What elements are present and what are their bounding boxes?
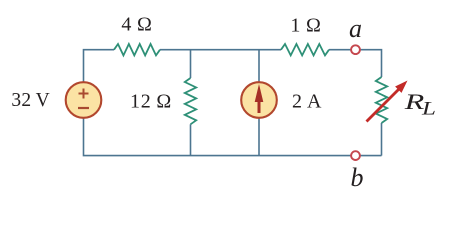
wire 12-ohm branch top: [190, 50, 192, 78]
svg-text:1 Ω: 1 Ω: [290, 15, 321, 37]
voltage source plus sign: [79, 89, 89, 99]
voltage source minus sign: [78, 107, 89, 109]
wire 2A branch top: [258, 50, 260, 83]
svg-text:a: a: [349, 14, 362, 43]
wire bottom rail: [84, 118, 382, 156]
resistor RL vertical zigzag (variable): [376, 77, 387, 123]
terminal node b: [351, 151, 360, 160]
current source I1 2A circle: [241, 82, 277, 118]
resistor R=1ohm zigzag: [281, 44, 329, 55]
svg-text:4 Ω: 4 Ω: [121, 14, 152, 36]
svg-text:32 V: 32 V: [11, 90, 50, 111]
resistor R=4ohm zigzag: [114, 44, 160, 55]
svg-text:2 A: 2 A: [292, 91, 322, 113]
current source arrow: [258, 100, 261, 113]
wire 2A branch bottom: [258, 118, 260, 156]
wire right lower segment: [381, 123, 383, 156]
terminal node a: [351, 45, 360, 54]
wire top right segment to corner and down: [329, 50, 382, 77]
RL variable arrow: [367, 89, 400, 122]
svg-text:L: L: [421, 98, 436, 119]
svg-text:b: b: [351, 163, 364, 192]
svg-text:12 Ω: 12 Ω: [130, 91, 172, 113]
wire top rail: [84, 50, 115, 83]
wire 12-ohm branch bottom: [190, 124, 192, 155]
voltage source V1 32V circle: [66, 82, 102, 118]
resistor R=12ohm vertical zigzag: [185, 78, 196, 124]
wire top mid segment: [160, 49, 281, 51]
